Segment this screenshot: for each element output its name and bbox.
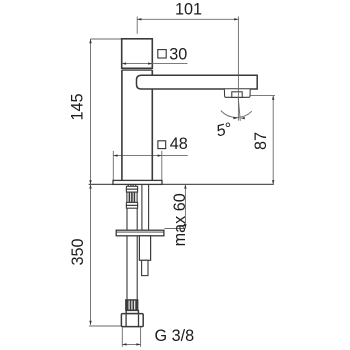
dimension line 101 [137, 18, 238, 20]
arrow right of dim 30 [148, 62, 152, 64]
arrow left of dim 30 [122, 62, 126, 64]
mounting washer [116, 230, 164, 236]
extension line right of dim G3/8 [140, 327, 142, 347]
spline bar 3 [133, 192, 135, 202]
nut facet right [138, 314, 140, 326]
arrow left of dim 48 [113, 154, 117, 156]
extension line right of dim 48 [161, 151, 163, 181]
arrow right of dim 48 [158, 154, 162, 156]
svg-text:G 3/8: G 3/8 [155, 327, 195, 345]
shank spline section [127, 192, 137, 202]
dimension line 30 with leader [122, 63, 188, 65]
shank ring C [126, 202, 137, 205]
bottom reference line of dim 350 [89, 325, 122, 327]
rod end [142, 260, 148, 275]
top reference line of dim 145 [91, 38, 122, 40]
water stream tilted axis 5 deg [238, 97, 240, 121]
faucet handle block [122, 39, 153, 69]
aerator outer [224, 89, 250, 97]
spline bar 2 [131, 192, 133, 202]
dimension line max 60 [184, 184, 186, 228]
connection nut G3/8 [121, 314, 143, 327]
spline bar 1 [128, 192, 130, 202]
hose collar [126, 310, 138, 313]
faucet body column right edge [151, 70, 153, 181]
handle lower band line [122, 69, 153, 71]
faucet body column left edge [121, 70, 123, 181]
shank ring B [126, 189, 137, 192]
mounting plate (escutcheon) [113, 180, 162, 184]
arrow left of dim G3/8 [122, 343, 126, 345]
dimension line 87 [272, 96, 274, 185]
arrow top of dim max 60 [184, 184, 186, 188]
top reference line of dim 87 [250, 95, 275, 97]
extension line left of dim 101 (faucet axis) [136, 17, 138, 34]
square symbol of label 30 [158, 50, 166, 58]
arrow top of dim 350 [89, 184, 91, 188]
shank ring D [126, 205, 137, 208]
rod sleeve nut [139, 236, 150, 260]
arrow top of dim 87 [272, 96, 274, 100]
extension line left of dim 48 [112, 151, 114, 181]
washer mid line [116, 231, 164, 233]
svg-text:48: 48 [170, 135, 188, 153]
countertop line [89, 183, 274, 185]
braid slit 3 [134, 301, 136, 310]
aerator inner step [232, 92, 242, 98]
arrow bottom of dim max 60 [184, 224, 186, 228]
svg-text:87: 87 [252, 132, 270, 150]
arrow left of dim 101 [137, 18, 141, 20]
extension line right of dim 101 upper part [237, 17, 239, 76]
dimension line 48 with leader [113, 155, 187, 157]
arc arrow right [241, 117, 245, 119]
arrow right of dim 101 [234, 18, 238, 20]
svg-text:30: 30 [169, 45, 187, 63]
dimension line 145 [90, 39, 92, 184]
arrow bottom of dim 350 [89, 321, 91, 325]
nut facet left [125, 314, 127, 326]
arrow top of dim 145 [89, 39, 91, 43]
threaded rod left edge [141, 185, 143, 231]
arrow bottom of dim 87 [272, 180, 274, 184]
square symbol of label 48 [158, 141, 166, 149]
braid slit 1 [128, 301, 130, 310]
spout tube [137, 75, 258, 89]
dimension line 350 [90, 184, 92, 325]
supply hose right edge [136, 208, 138, 300]
svg-text:350: 350 [69, 238, 87, 265]
arrow right of dim G3/8 [136, 343, 140, 345]
hose braided end [126, 300, 138, 311]
dimension line G3/8 left segment [122, 343, 140, 345]
extension line left of dim G3/8 [121, 327, 123, 347]
arrow bottom of dim 145 [89, 180, 91, 184]
shank stub lines [127, 185, 129, 187]
svg-text:101: 101 [175, 0, 202, 18]
supply hose left edge [126, 208, 128, 300]
bottom reference line of dim max 60 [165, 228, 186, 230]
svg-text:145: 145 [69, 93, 87, 120]
svg-text:max 60: max 60 [171, 193, 189, 246]
arc arrow left [233, 117, 237, 119]
braid slit 2 [131, 301, 133, 310]
shank ring A [126, 186, 137, 189]
extension line right of dim 101 crossing spout [237, 76, 239, 121]
angle arc 5 deg [221, 111, 252, 118]
threaded rod right edge [148, 185, 150, 231]
